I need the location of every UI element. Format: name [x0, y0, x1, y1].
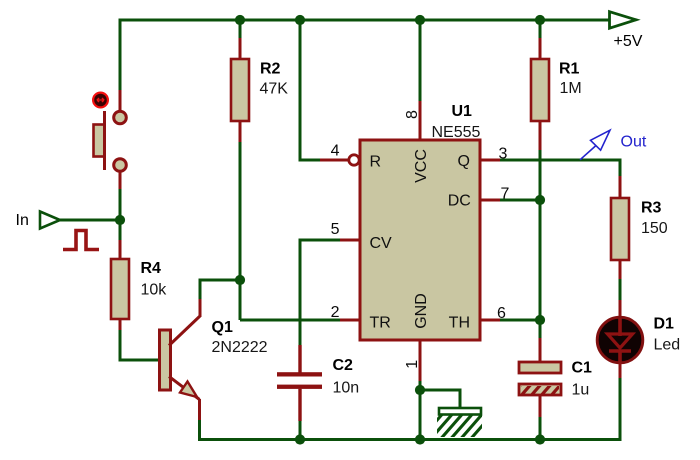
node In junction	[115, 215, 125, 225]
svg-text:R3: R3	[641, 199, 662, 216]
resistor R2 bottom lead	[239, 121, 242, 142]
resistor R3 top lead	[619, 176, 622, 198]
svg-text:NE555: NE555	[432, 124, 481, 141]
pushbutton bottom lead	[119, 172, 122, 190]
svg-text:Q1: Q1	[212, 319, 233, 336]
capacitor C2 top lead	[298, 345, 301, 373]
pin 6 TH lead	[480, 319, 500, 322]
wire down to C2	[299, 239, 302, 346]
node on rail x=420	[415, 15, 425, 25]
transistor Q1	[160, 299, 268, 420]
svg-text:+5V: +5V	[614, 33, 643, 50]
node TH junction	[535, 315, 545, 325]
ground symbol	[418, 408, 495, 442]
wire TH to R1 column	[500, 319, 540, 322]
resistor R3	[611, 198, 668, 260]
resistor R3 bottom lead	[619, 260, 622, 279]
svg-text:2N2222: 2N2222	[212, 339, 268, 356]
power terminal +5V arrow	[610, 12, 643, 50]
resistor R1 top lead	[539, 38, 542, 59]
resistor R2	[231, 59, 288, 121]
svg-text:Led: Led	[654, 337, 681, 354]
svg-text:TR: TR	[370, 314, 391, 331]
wire rail to R1	[539, 20, 542, 38]
wire R2 to node	[239, 142, 242, 280]
wire CV to C2 column	[300, 239, 340, 242]
svg-text:TH: TH	[449, 314, 470, 331]
wire collector to node	[199, 279, 241, 282]
node rail x=540	[535, 434, 545, 444]
wire pin4 to rail	[300, 20, 320, 160]
svg-text:5: 5	[331, 221, 340, 238]
svg-text:1u: 1u	[572, 381, 590, 398]
capacitor C2	[277, 357, 359, 396]
wire node to R4	[119, 220, 122, 240]
wire C2 to ground rail	[299, 421, 302, 440]
wire R1 down through DC and TH	[539, 150, 542, 338]
pin 2 TR lead	[340, 319, 360, 322]
svg-text:4: 4	[331, 142, 340, 159]
svg-text:C1: C1	[572, 359, 593, 376]
svg-text:D1: D1	[654, 315, 675, 332]
wire button to In node	[119, 189, 122, 220]
wire rail to R2	[239, 20, 242, 38]
wire R3 to D1	[619, 279, 622, 300]
pulse symbol	[63, 231, 99, 250]
svg-text:In: In	[16, 212, 29, 229]
wire to ground symbol	[420, 390, 460, 408]
svg-text:150: 150	[641, 220, 668, 237]
wire Q out corner down	[619, 159, 622, 177]
wire pin8 to rail	[419, 20, 422, 101]
wire Q1 collector up	[199, 280, 202, 299]
capacitor C1 top lead	[539, 338, 542, 362]
wire Q output	[500, 159, 620, 162]
node rail x=300	[295, 434, 305, 444]
pin 5 CV lead	[340, 239, 360, 242]
svg-text:R1: R1	[559, 61, 580, 78]
resistor R1 bottom lead	[539, 121, 542, 150]
svg-text:Q: Q	[458, 153, 470, 170]
svg-text:1M: 1M	[560, 80, 582, 97]
svg-text:8: 8	[404, 110, 421, 119]
svg-text:DC: DC	[448, 192, 471, 209]
svg-text:2: 2	[331, 304, 340, 321]
input terminal In	[16, 212, 61, 230]
wire top +5V rail	[120, 19, 609, 22]
pin 4 lead	[320, 159, 348, 162]
wire rail to button	[119, 19, 122, 91]
pin 7 DC lead	[480, 199, 500, 202]
svg-text:C2: C2	[333, 357, 354, 374]
wire C1 to ground rail	[539, 417, 542, 440]
pin 3 Q lead	[480, 159, 500, 162]
resistor R4 top lead	[119, 240, 122, 259]
resistor R2 top lead	[239, 38, 242, 59]
pin 8 lead	[419, 101, 422, 140]
LED D1	[597, 315, 680, 364]
node on rail x=540	[535, 15, 545, 25]
svg-text:1: 1	[404, 360, 421, 369]
wire R4 to Q1 base	[120, 330, 159, 360]
capacitor C2 bottom lead	[298, 389, 301, 421]
pin 1 lead	[419, 340, 422, 381]
resistor R1	[531, 59, 582, 121]
svg-text:10k: 10k	[141, 282, 168, 299]
pushbutton top lead	[119, 90, 122, 111]
wire pin1 to ground node	[419, 381, 422, 390]
node DC junction	[535, 195, 545, 205]
node on rail x=300	[295, 15, 305, 25]
wire Q1 emitter to ground rail	[198, 420, 201, 441]
wire to TR pin	[240, 319, 340, 322]
IC U1 NE555 body	[360, 103, 481, 340]
resistor R4 bottom lead	[119, 319, 122, 330]
wire DC to R1 column	[500, 199, 540, 202]
node ground junction	[415, 385, 425, 395]
pin 4 R bubble	[349, 155, 359, 165]
svg-text:R: R	[370, 153, 382, 170]
diode D1 cathode lead	[619, 362, 622, 378]
svg-text:VCC: VCC	[413, 149, 430, 183]
svg-text:10n: 10n	[333, 379, 360, 396]
node R2/collector/TR junction	[235, 275, 245, 285]
svg-text:CV: CV	[370, 235, 393, 252]
wire ground node to rail	[419, 390, 422, 440]
node rail x=420	[415, 434, 425, 444]
output terminal Out	[580, 130, 647, 160]
diode D1 anode lead	[619, 300, 622, 318]
resistor R4	[111, 259, 167, 319]
svg-text:47K: 47K	[260, 80, 289, 97]
capacitor C1	[509, 359, 592, 398]
svg-text:GND: GND	[413, 293, 430, 329]
wire node down to TR level	[239, 280, 242, 320]
svg-text:Out: Out	[621, 133, 647, 150]
wire In terminal to node	[60, 219, 120, 222]
node on rail x=240	[235, 15, 245, 25]
svg-text:U1: U1	[452, 103, 473, 120]
wire D1 to ground rail	[619, 378, 622, 441]
pushbutton	[93, 93, 126, 172]
svg-text:R4: R4	[141, 260, 162, 277]
wire bottom ground rail	[198, 438, 620, 441]
svg-text:R2: R2	[260, 61, 281, 78]
capacitor C1 bottom lead	[539, 395, 542, 417]
